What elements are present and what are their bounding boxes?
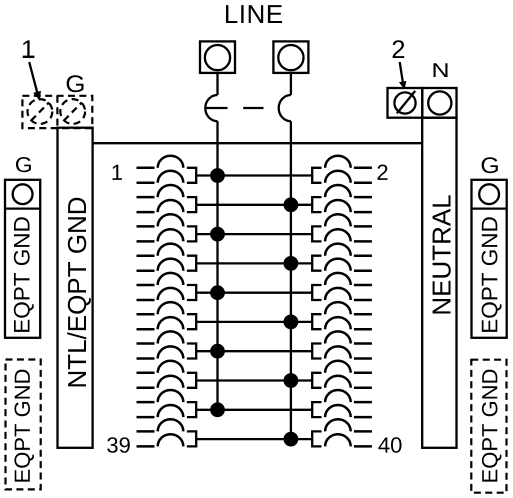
right EQPT GND terminal box with screw circle xyxy=(472,180,507,338)
serif foot of callout 1 xyxy=(23,56,35,58)
label LINE xyxy=(226,5,282,23)
terminal number 39 xyxy=(107,437,130,453)
receptacle clip pair 1/3 (left side): leads, arcs, bracket xyxy=(137,156,197,183)
terminal number 1 xyxy=(113,165,122,180)
left dashed EQPT GND label xyxy=(14,370,34,482)
receptacle clip pair 17/19 (left side): leads, arcs, bracket xyxy=(137,273,197,300)
wire from L1 to breaker CB1 xyxy=(216,73,218,95)
receptacle clip pair 29/31 (left side): leads, arcs, bracket xyxy=(137,361,197,388)
callout number 1 xyxy=(23,40,34,58)
callout 1 arrow xyxy=(29,62,41,101)
receptacle clip pair 5/7 (left side): leads, arcs, bracket xyxy=(137,185,197,212)
terminal number 40 xyxy=(378,437,401,453)
row 3 feed wire xyxy=(196,233,312,235)
receptacle clip pair 33/35 (left side): leads, arcs, bracket xyxy=(137,390,197,417)
label G above dashed ground terminal xyxy=(67,75,84,92)
wire from L2 to breaker CB2 xyxy=(290,73,292,95)
row 5 feed wire xyxy=(196,292,312,294)
row 6 feed wire xyxy=(196,321,312,323)
right dashed EQPT GND label xyxy=(482,370,502,482)
receptacle clip pair 25/27 (left side): leads, arcs, bracket xyxy=(137,331,197,358)
junction dot on right bus, row 6 xyxy=(284,315,299,330)
neutral terminal N xyxy=(422,88,456,118)
receptacle clip pair 34/36 (right side): bracket, arcs, leads xyxy=(312,390,372,417)
receptacle clip pair 21/23 (left side): leads, arcs, bracket xyxy=(137,302,197,329)
receptacle clip pair 2/4 (right side): bracket, arcs, leads xyxy=(312,156,372,183)
junction dot on right bus, row 2 xyxy=(284,197,299,212)
receptacle clip pair 30/32 (right side): bracket, arcs, leads xyxy=(312,361,372,388)
label G (right equipment ground) xyxy=(482,157,498,173)
NEUTRAL bar label xyxy=(433,195,451,313)
receptacle clip pair 14/16 (right side): bracket, arcs, leads xyxy=(312,244,372,271)
circuit breaker CB1 xyxy=(205,95,217,121)
neutral feed screw terminal (circle with slash) xyxy=(388,88,423,118)
left EQPT GND terminal box with screw circle xyxy=(5,180,40,338)
row 2 feed wire xyxy=(196,204,312,206)
NTL/EQPT GND bus bar xyxy=(58,128,93,448)
receptacle clip pair 6/8 (right side): bracket, arcs, leads xyxy=(312,185,372,212)
junction dot on right bus, row 8 xyxy=(284,373,299,388)
receptacle clip pair 13/15 (left side): leads, arcs, bracket xyxy=(137,244,197,271)
junction dot on left bus, row 9 xyxy=(210,402,225,417)
junction dot on left bus, row 5 xyxy=(210,285,225,300)
junction dot on left bus, row 3 xyxy=(210,227,225,242)
receptacle clip pair 37/39 (left side): leads, arcs, bracket xyxy=(137,419,197,446)
left EQPT GND box label xyxy=(14,217,34,332)
receptacle clip pair 9/11 (left side): leads, arcs, bracket xyxy=(137,214,197,241)
callout number 2 xyxy=(393,40,405,58)
receptacle clip pair 26/28 (right side): bracket, arcs, leads xyxy=(312,331,372,358)
junction dot on right bus, row 10 xyxy=(284,432,299,447)
receptacle clip pair 18/20 (right side): bracket, arcs, leads xyxy=(312,273,372,300)
breaker CB1 handle line xyxy=(205,107,227,109)
callout 2 arrow xyxy=(399,62,407,90)
receptacle clip pair 22/24 (right side): bracket, arcs, leads xyxy=(312,302,372,329)
row 4 feed wire xyxy=(196,262,312,264)
junction dot on left bus, row 7 xyxy=(210,344,225,359)
breaker tie-bar dash xyxy=(243,107,263,109)
NEUTRAL bus bar xyxy=(422,118,456,448)
right EQPT GND box label xyxy=(482,217,502,332)
dashed future ground terminal block (2 positions, screw circles) xyxy=(22,96,92,128)
row 8 feed wire xyxy=(196,379,312,381)
row 10 feed wire xyxy=(196,438,312,440)
label N xyxy=(434,63,448,77)
top rail wire from NTL/EQPT GND bar to NEUTRAL bar xyxy=(92,142,423,144)
line terminal L2 xyxy=(273,41,308,73)
vertical phase bus wire from CB1 xyxy=(216,121,218,410)
terminal number 2 xyxy=(378,165,388,180)
receptacle clip pair 10/12 (right side): bracket, arcs, leads xyxy=(312,214,372,241)
right dashed future EQPT GND box xyxy=(471,360,506,493)
line terminal L1 xyxy=(200,41,235,73)
receptacle clip pair 38/40 (right side): bracket, arcs, leads xyxy=(312,419,372,446)
row 9 feed wire xyxy=(196,409,312,411)
row 1 feed wire xyxy=(196,174,312,176)
row 7 feed wire xyxy=(196,350,312,352)
label G (left equipment ground) xyxy=(16,157,31,172)
left dashed future EQPT GND box xyxy=(6,360,41,490)
vertical phase bus wire from CB2 xyxy=(290,121,292,439)
junction dot on right bus, row 4 xyxy=(284,256,299,271)
NTL/EQPT GND bar label xyxy=(67,198,91,387)
junction dot on left bus, row 1 xyxy=(210,168,225,183)
circuit breaker CB2 xyxy=(279,95,291,121)
